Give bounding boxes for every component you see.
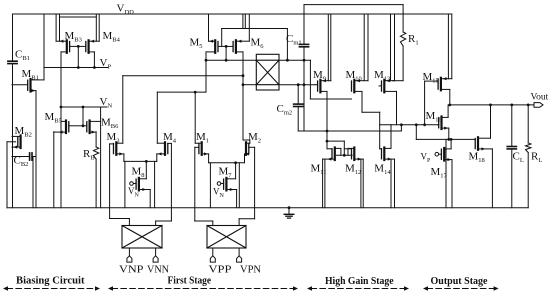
wire chopper2 output pins: [213, 248, 239, 256]
svg-text:High Gain Stage: High Gain Stage: [325, 275, 394, 287]
chopper CH3 output: [256, 54, 279, 90]
wire MB4 inner vertical: [95, 14, 97, 41]
transistor M4 label: [163, 131, 177, 144]
transistor M13: [379, 79, 397, 92]
capacitor CB1 label: [15, 49, 30, 62]
wire M1 drain up: [194, 92, 196, 143]
transistor MB2 label: [15, 125, 32, 138]
wire VN branch to ground: [60, 107, 62, 208]
node Output Stage arrow: [423, 286, 499, 290]
transistor M18: [475, 137, 492, 150]
capacitor Cm2: [294, 85, 303, 131]
node Output Stage label: [431, 275, 488, 287]
wire over-rail loop Cm1 to R1: [304, 4, 403, 6]
transistor M13 label: [374, 69, 390, 82]
transistor MB3: [56, 40, 78, 53]
transistor M12: [344, 148, 363, 161]
wire M14 source to ground: [391, 159, 395, 208]
transistor M1: [195, 142, 208, 155]
wire RB to ground: [95, 159, 97, 208]
wire M4 source to bus1: [156, 154, 158, 162]
ground: [284, 206, 294, 218]
transistor M10: [349, 79, 368, 99]
wire M15 source to VDD: [448, 14, 451, 79]
capacitor CB1: [8, 61, 17, 63]
wire M3 source down to bus1: [123, 154, 125, 162]
capacitor Cm2 label: [277, 103, 293, 116]
wire M9 source to VDD: [328, 14, 331, 81]
transistor M15 label: [423, 71, 439, 84]
wire net-B top line to chopper: [206, 59, 256, 61]
svg-text:Output Stage: Output Stage: [431, 275, 488, 287]
wire M9 drain down: [326, 92, 329, 149]
transistor M9 label: [313, 69, 326, 82]
node M8 VN terminal label: [128, 186, 140, 198]
svg-text:Vout: Vout: [531, 92, 549, 102]
transistor M3 label: [107, 131, 120, 144]
transistor M6 label: [251, 37, 265, 50]
wire M10 drain to M14 gate: [362, 92, 380, 149]
svg-text:VPP: VPP: [209, 265, 232, 276]
node M5-M6 gate node: [225, 45, 228, 62]
wire M17 source to ground: [451, 160, 453, 208]
capacitor CB2: [12, 153, 36, 208]
transistor M16: [438, 117, 449, 130]
transistor M1 label: [196, 131, 209, 144]
wire M2 drain up: [243, 140, 250, 143]
wire M14 drain up: [390, 125, 392, 149]
wire M5 source to VDD: [208, 14, 210, 41]
wire left bias column: [12, 14, 14, 208]
transistor M8 label: [132, 166, 145, 179]
transistor M15: [425, 77, 450, 90]
node VPN label: [240, 265, 261, 276]
wire M8 source to ground: [149, 190, 151, 208]
transistor M16 label: [426, 110, 443, 123]
resistor RL label: [531, 151, 542, 164]
transistor MB1 label: [22, 68, 39, 81]
wire M3 gate to chopper1: [110, 144, 130, 226]
wire MB4 source to VDD: [98, 14, 100, 41]
node MB5-MB6 gates to VN: [82, 107, 85, 127]
wire MB5 source to ground: [53, 132, 55, 208]
wire M6 source to VDD: [248, 14, 250, 41]
wire second stage output line: [380, 123, 438, 126]
wire bus2: [209, 161, 245, 164]
node VPP pin: [210, 256, 215, 262]
transistor M10 label: [346, 69, 362, 82]
svg-text:First Stage: First Stage: [168, 275, 212, 287]
wire VDD rail: [13, 13, 452, 15]
wire M5 drain down: [205, 52, 208, 92]
resistor RB label: [83, 148, 95, 161]
wire M17 drain up: [450, 139, 452, 149]
wire M8 drain to bus1: [145, 161, 147, 178]
transistor M14: [380, 148, 395, 161]
wire bus3: [298, 123, 403, 131]
transistor M8: [130, 178, 151, 191]
node Vout pin: [534, 103, 543, 108]
node M7 VN terminal label: [213, 187, 225, 199]
transistor MB6 label: [101, 117, 119, 130]
wire M4 gate to chopper1: [156, 143, 172, 225]
wire M18 source to ground: [491, 149, 493, 208]
transistor M5 label: [190, 37, 203, 50]
resistor RL: [526, 105, 531, 208]
node VNN pin: [153, 256, 158, 262]
node VNP pin: [127, 256, 132, 262]
transistor M5: [206, 40, 226, 53]
resistor R1: [400, 5, 405, 81]
chopper CH1 input: [122, 226, 162, 249]
chopper CH2 input: [207, 226, 246, 249]
node First Stage label: [168, 275, 212, 287]
wire M16 source down: [448, 128, 450, 139]
wire M16 gate feedback Z: [416, 125, 475, 208]
wire M2 source to bus2: [244, 154, 246, 163]
node VN label: [100, 96, 113, 109]
svg-text:VPN: VPN: [240, 265, 261, 276]
wire VDD to MB1 top: [43, 14, 45, 80]
wire bus1 right end to ground: [154, 161, 156, 207]
wire MB6 source to RB: [95, 132, 97, 147]
wire R1 node to M13 source: [393, 80, 404, 82]
node Vout line: [448, 104, 534, 107]
node VNP label: [119, 265, 144, 276]
wire M2 gate to chopper2: [239, 147, 255, 225]
wire M4 drain up: [156, 92, 158, 143]
svg-text:VNN: VNN: [147, 265, 169, 276]
capacitor CL: [507, 105, 516, 208]
capacitor Cm1 label: [286, 33, 302, 46]
wire M12 source to ground: [361, 159, 363, 208]
wire MB5 drain to VN: [60, 107, 62, 121]
transistor M11: [323, 148, 341, 161]
wire M15 drain to Vout: [449, 90, 451, 105]
wire M13 drain down: [396, 92, 398, 125]
node VNN label: [147, 265, 169, 276]
wire net-B to M4 M1 drains: [157, 91, 206, 94]
transistor M7: [217, 178, 236, 191]
wire bus2 right end to ground: [238, 163, 240, 208]
wire MB4 drain to VP: [93, 52, 95, 68]
wire M5-M6 inner bridge: [222, 14, 289, 62]
transistor MB6: [83, 121, 101, 134]
transistor M12 label: [345, 163, 361, 176]
svg-text:Biasing Circuit: Biasing Circuit: [16, 275, 85, 287]
wire bus1 left end to ground: [124, 161, 126, 207]
transistor MB5 label: [45, 111, 62, 124]
wire M1 source to bus2: [208, 154, 210, 163]
wire M11 source to ground: [323, 159, 325, 208]
node Biasing Circuit label: [16, 275, 85, 287]
transistor M11 label: [311, 163, 327, 176]
transistor M9: [315, 79, 331, 92]
wire Cm1 node to bus3: [303, 85, 305, 131]
wire MB6 drain up: [100, 107, 102, 208]
wire M6 drain down: [242, 52, 245, 140]
transistor M14 label: [374, 163, 391, 176]
wire M10 source to VDD: [364, 14, 368, 81]
transistor MB5: [54, 121, 83, 134]
node M17 VP terminal label: [421, 152, 432, 164]
transistor MB1: [12, 79, 44, 92]
node VN line: [60, 106, 107, 109]
wire M11-M12 gate wire: [327, 141, 344, 155]
wire MB3 source to VDD: [55, 14, 57, 41]
capacitor CB2 label: [14, 155, 29, 168]
transistor MB2: [12, 136, 21, 149]
transistor MB4: [78, 40, 99, 53]
transistor M4: [157, 142, 172, 155]
svg-text:VNP: VNP: [119, 265, 144, 276]
wire M13 source to VDD: [391, 14, 395, 81]
wire net-A from M3 drain: [123, 75, 243, 77]
node High Gain Stage arrow: [307, 286, 409, 290]
wire M3 drain up: [122, 76, 124, 144]
node VDD label: [117, 3, 135, 16]
node First Stage arrow: [108, 286, 298, 290]
wire MB3 drain down: [60, 52, 62, 107]
transistor M6: [226, 40, 249, 53]
transistor M17 label: [431, 166, 448, 179]
transistor MB3 label: [65, 30, 82, 43]
wire CH3 bottom output to M9 gate: [279, 83, 315, 86]
node Biasing Circuit arrow: [3, 286, 100, 290]
node VPP label: [209, 265, 232, 276]
transistor M7 label: [219, 166, 233, 179]
capacitor CL label: [513, 151, 524, 164]
node Vout label: [531, 92, 549, 102]
node MB3-MB4 gate to VP: [77, 45, 80, 68]
wire ground rail: [7, 207, 528, 209]
transistor MB4 label: [103, 30, 121, 43]
wire Cm1 node down: [303, 60, 305, 84]
node VP label: [100, 57, 112, 70]
wire M15 gate to second stage: [423, 81, 426, 126]
node VP line: [44, 66, 108, 69]
wire chopper1 output pins: [129, 248, 155, 256]
wire M7 source to ground: [236, 190, 238, 208]
transistor M2: [245, 142, 250, 155]
wire bus1: [124, 160, 157, 163]
transistor M17: [435, 148, 452, 161]
transistor M18 label: [469, 151, 485, 164]
wire sub-rail connector MB3-MB4: [60, 16, 97, 18]
wire CH3 top output to M10 gate: [279, 59, 349, 99]
wire MB3 inner vertical: [59, 14, 61, 41]
wire MB2 gate to ground: [7, 142, 16, 208]
wire bus2 left end to ground: [209, 163, 211, 208]
node High Gain Stage label: [325, 275, 394, 287]
wire M7 drain to bus2: [235, 163, 237, 179]
wire MB1 bottom down: [35, 91, 37, 208]
wire net-A to chopper lower input: [243, 84, 256, 86]
transistor M3: [110, 142, 124, 155]
capacitor Cm1: [299, 5, 308, 61]
node VPN pin: [237, 256, 242, 262]
wire M11-M12 drain node: [337, 148, 353, 156]
wire M18 drain to Vout: [490, 105, 492, 138]
wire M16 drain to Vout: [447, 105, 449, 118]
resistor RB: [93, 147, 98, 159]
wire M1 gate to chopper2: [195, 147, 213, 225]
resistor R1 label: [408, 33, 419, 46]
transistor M2 label: [248, 131, 261, 144]
